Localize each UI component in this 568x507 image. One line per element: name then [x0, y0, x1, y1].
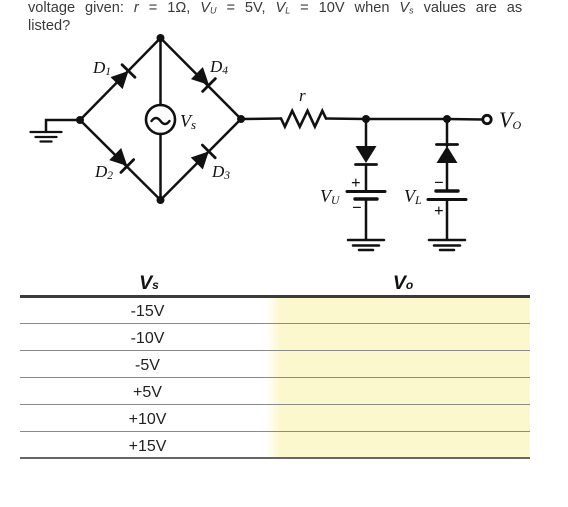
wire junction B down: [446, 119, 449, 146]
svg-text:D1: D1: [92, 58, 111, 78]
AC source VS: [146, 105, 175, 134]
table highlight Vo column: [266, 298, 530, 458]
node bottom of bridge: [157, 196, 165, 204]
label + of VU: [351, 173, 361, 192]
wire center vertical bottom: [159, 134, 162, 200]
label D4: [209, 57, 228, 77]
wire battery VU to ground: [365, 199, 368, 239]
wire to ground left: [46, 120, 80, 131]
svg-text:r: r: [299, 86, 306, 105]
table header Vo: [275, 272, 531, 295]
svg-text:−: −: [352, 198, 362, 217]
label D1: [92, 58, 111, 78]
question text line 1: [28, 0, 522, 17]
ground left: [31, 132, 62, 142]
diode D4: [191, 67, 216, 92]
table bottom rule: [20, 457, 530, 459]
wire resistor to junction A: [326, 117, 366, 120]
table row rules: [20, 323, 530, 324]
circuit schematic: [0, 0, 568, 262]
label VU: [320, 186, 340, 207]
node right of bridge: [237, 115, 245, 123]
wire diode to battery VL: [446, 163, 449, 190]
label - of VL: [434, 173, 444, 192]
diode D3: [190, 145, 215, 170]
wire battery VL to ground: [446, 200, 449, 240]
wire bridge left-top side: [80, 38, 161, 120]
label r: [299, 86, 306, 105]
label + of VL: [434, 201, 444, 220]
label VL: [404, 186, 422, 207]
wire bridge bottom-right side: [161, 119, 242, 200]
node left of bridge: [76, 116, 84, 124]
wire bridge top-right side: [161, 38, 242, 119]
question text line 2: [28, 17, 70, 35]
diode D5 upper clamp: [356, 146, 377, 165]
wire right node to resistor: [241, 117, 281, 120]
wire center vertical top: [159, 38, 162, 105]
ground under VU: [348, 240, 384, 250]
svg-text:Vs: Vs: [180, 111, 196, 132]
table rows Vs values: [20, 303, 275, 321]
label VS: [180, 111, 196, 132]
svg-text:VO: VO: [499, 107, 521, 132]
node junction B: [443, 115, 451, 123]
wire bridge left-bottom side: [80, 120, 161, 200]
svg-text:VL: VL: [404, 186, 422, 207]
label D2: [94, 162, 113, 182]
wire diode to battery VU: [365, 165, 368, 190]
wire junction A down: [365, 119, 368, 146]
svg-text:+: +: [434, 201, 444, 220]
svg-text:D2: D2: [94, 162, 113, 182]
svg-text:D3: D3: [211, 162, 230, 182]
output terminal VO: [483, 115, 491, 123]
label D3: [211, 162, 230, 182]
svg-text:+: +: [351, 173, 361, 192]
node junction A: [362, 115, 370, 123]
wire junction A to junction B: [366, 118, 447, 121]
battery VL: [428, 191, 466, 200]
ground under VL: [429, 240, 465, 250]
diode D6 lower clamp: [437, 145, 458, 164]
diode D2: [109, 148, 134, 173]
table thick top rule: [20, 295, 530, 298]
svg-text:−: −: [434, 173, 444, 192]
svg-text:VU: VU: [320, 186, 340, 207]
label VO: [499, 107, 521, 132]
table header Vs: [20, 272, 278, 295]
wire junction B to output terminal: [447, 118, 482, 121]
svg-text:D4: D4: [209, 57, 228, 77]
battery VU: [347, 192, 385, 200]
resistor r: [281, 111, 326, 127]
node top of bridge: [157, 34, 165, 42]
diode D1: [110, 65, 135, 90]
label - of VU: [352, 198, 362, 217]
